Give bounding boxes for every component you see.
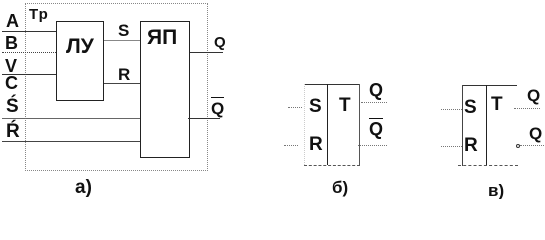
flip-flop symbol (b): left edge (faint) (304, 84, 305, 165)
block YaP (memory cell) (140, 21, 190, 158)
trigger block boundary (dashed box Тр) (25, 3, 208, 171)
output Q label (214, 35, 226, 50)
label YaP (147, 27, 177, 48)
flip-flop symbol (b): right edge (359, 84, 360, 165)
wire output Q (190, 52, 223, 53)
input V label (5, 57, 17, 75)
wire R (LU to YaP) (104, 83, 140, 84)
label Q (v, inverse) (529, 125, 542, 142)
label Tp (29, 7, 49, 22)
input S-bar label (6, 97, 19, 116)
output Q-bar label (211, 97, 224, 117)
flip-flop symbol (b): top edge (304, 84, 360, 85)
label S (v) (464, 98, 477, 117)
wire input S-bar (2, 118, 140, 119)
wire output Q (v) (514, 108, 540, 109)
wire output Q (b) (361, 102, 387, 103)
input R-bar label (6, 122, 20, 141)
flip-flop symbol (b): divider (327, 84, 328, 165)
wire input R-bar (2, 141, 140, 142)
label Q (b) (369, 81, 383, 99)
node S label (118, 22, 129, 39)
input B label (5, 34, 18, 52)
input A label (6, 12, 19, 30)
node R label (118, 66, 130, 83)
caption b) (332, 179, 348, 196)
flip-flop symbol (v): divider (486, 85, 487, 166)
flip-flop symbol (b): bottom edge (304, 165, 360, 166)
flip-flop symbol (v): left edge (462, 85, 463, 166)
label Q (v, direct) (527, 87, 540, 104)
label R (b) (309, 135, 323, 154)
label S (b) (309, 97, 322, 116)
wire output Q-bar (188, 118, 220, 119)
wire input V (2, 74, 56, 75)
flip-flop symbol (v): top edge (462, 85, 517, 86)
wire input S (b) (288, 107, 302, 108)
wire input S (v) (441, 109, 462, 110)
label R (v) (464, 136, 478, 155)
wire input A (2, 31, 56, 32)
label LU (66, 36, 94, 57)
wire output Q-bar (b) (358, 145, 387, 146)
inversion bubble (v) (516, 144, 520, 148)
wire input B (dotted) (2, 52, 56, 53)
wire S (LU to YaP) (104, 40, 140, 41)
label T (v) (491, 95, 503, 114)
flip-flop symbol (v): bottom edge (458, 165, 518, 166)
wire output Q-bar (v) (520, 145, 544, 146)
label Q-bar (b) (369, 118, 383, 138)
caption v) (488, 182, 504, 199)
block LU (logic unit) (56, 21, 104, 101)
wire input R (b) (284, 145, 298, 146)
caption a) (75, 178, 92, 197)
label T (b) (339, 96, 351, 115)
input C label (5, 74, 18, 92)
wire input R (v) (441, 146, 462, 147)
